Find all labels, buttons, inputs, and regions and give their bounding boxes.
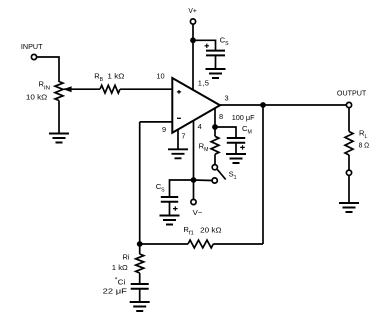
- svg-text:10: 10: [156, 71, 164, 80]
- svg-text:V−: V−: [193, 208, 203, 217]
- svg-text:3: 3: [225, 93, 229, 102]
- svg-text:22 μF: 22 μF: [103, 287, 128, 296]
- svg-text:V+: V+: [188, 6, 196, 15]
- svg-text:20 kΩ: 20 kΩ: [200, 225, 222, 234]
- svg-text:100 μF: 100 μF: [232, 113, 255, 122]
- svg-text:1 kΩ: 1 kΩ: [112, 263, 128, 272]
- svg-text:Ci: Ci: [118, 277, 126, 286]
- svg-text:Ri: Ri: [123, 253, 130, 262]
- svg-text:9: 9: [162, 125, 166, 134]
- svg-text:OUTPUT: OUTPUT: [337, 89, 367, 98]
- svg-text:8 Ω: 8 Ω: [359, 141, 370, 150]
- svg-text:7: 7: [181, 131, 185, 140]
- svg-text:4: 4: [198, 122, 202, 131]
- svg-text:8: 8: [219, 112, 223, 121]
- svg-text:10 kΩ: 10 kΩ: [26, 93, 48, 102]
- svg-text:1 kΩ: 1 kΩ: [107, 72, 125, 81]
- svg-text:INPUT: INPUT: [21, 42, 43, 51]
- svg-text:1,5: 1,5: [198, 78, 209, 87]
